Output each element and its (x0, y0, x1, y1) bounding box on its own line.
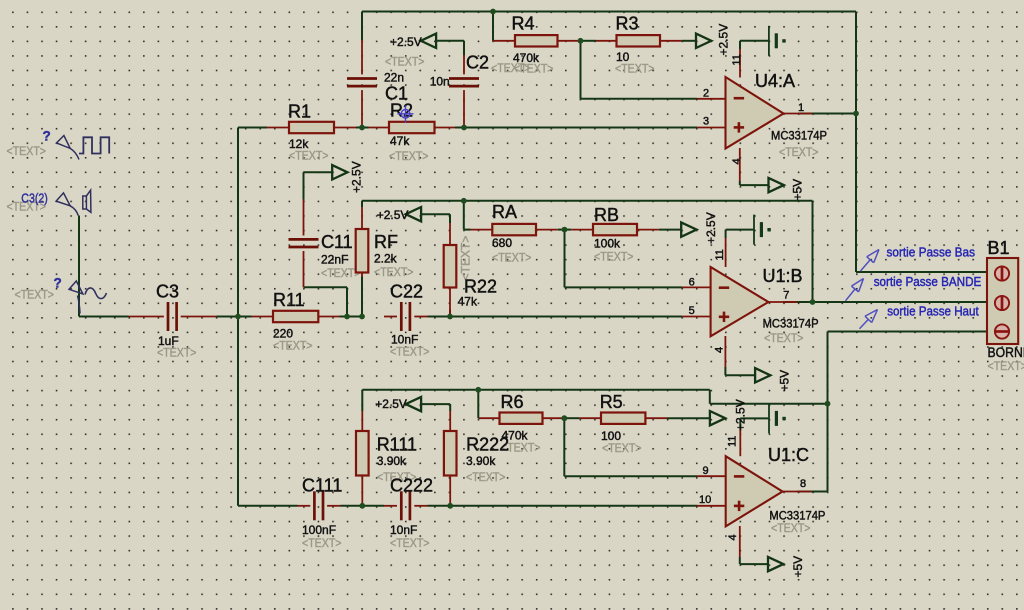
svg-text:C11: C11 (321, 232, 353, 252)
svg-text:+2.5V: +2.5V (734, 399, 748, 431)
svg-text:+2.5V: +2.5V (375, 397, 407, 411)
svg-text:R22: R22 (464, 277, 497, 297)
svg-text:+2.5V: +2.5V (717, 24, 731, 56)
svg-text:R222: R222 (466, 435, 509, 455)
svg-text:C3: C3 (156, 282, 179, 302)
svg-text:10n: 10n (430, 75, 450, 89)
svg-text:R1: R1 (288, 102, 311, 122)
svg-text:<TEXT>: <TEXT> (594, 250, 634, 264)
svg-text:<TEXT>: <TEXT> (492, 251, 532, 265)
svg-text:2: 2 (703, 88, 709, 100)
svg-text:5: 5 (689, 305, 695, 317)
svg-text:sortie Passe Bas: sortie Passe Bas (887, 246, 976, 260)
svg-text:C1: C1 (385, 84, 408, 104)
svg-text:U1:C: U1:C (768, 445, 809, 465)
svg-text:4: 4 (714, 347, 726, 353)
svg-text:+5V: +5V (791, 556, 805, 578)
svg-text:<TEXT>: <TEXT> (779, 145, 819, 159)
svg-text:11: 11 (714, 249, 726, 260)
svg-text:<TEXT>: <TEXT> (15, 288, 55, 302)
svg-text:<TEXT>: <TEXT> (459, 236, 473, 281)
svg-text:<TEXT>: <TEXT> (466, 470, 506, 484)
svg-text:+2.5V: +2.5V (377, 208, 409, 222)
svg-text:R4: R4 (512, 14, 535, 34)
svg-text:<TEXT>: <TEXT> (390, 536, 430, 550)
svg-text:RF: RF (374, 232, 398, 252)
svg-text:+2.5V: +2.5V (704, 212, 718, 244)
svg-text:?: ? (43, 129, 51, 144)
svg-text:<TEXT>: <TEXT> (988, 359, 1024, 373)
svg-text:<TEXT>: <TEXT> (390, 345, 430, 359)
svg-text:10nF: 10nF (391, 333, 418, 347)
svg-text:C111: C111 (302, 476, 342, 496)
svg-text:R3: R3 (616, 14, 639, 34)
svg-text:10: 10 (699, 494, 711, 506)
svg-text:4: 4 (731, 158, 743, 164)
svg-text:C22: C22 (390, 282, 423, 302)
svg-text:<TEXT>: <TEXT> (771, 521, 811, 535)
svg-text:1: 1 (798, 102, 804, 114)
svg-text:<TEXT>: <TEXT> (321, 266, 361, 280)
svg-text:<TEXT>: <TEXT> (385, 55, 425, 69)
svg-text:12k: 12k (289, 137, 309, 151)
svg-text:3.90k: 3.90k (377, 454, 407, 468)
svg-text:100nF: 100nF (302, 523, 336, 537)
svg-text:10: 10 (616, 50, 630, 64)
svg-text:U4:A: U4:A (755, 71, 795, 91)
svg-text:C3(2): C3(2) (21, 192, 48, 206)
svg-text:RA: RA (492, 202, 517, 222)
svg-text:100: 100 (601, 429, 621, 443)
svg-text:2.2k: 2.2k (374, 252, 398, 266)
svg-text:MC33174P: MC33174P (763, 317, 819, 331)
svg-text:7: 7 (783, 290, 789, 302)
svg-text:10nF: 10nF (390, 523, 417, 537)
svg-text:9: 9 (703, 465, 709, 477)
svg-text:sortie Passe Haut: sortie Passe Haut (887, 305, 979, 319)
svg-text:470k: 470k (513, 51, 540, 65)
svg-text:B1: B1 (988, 238, 1010, 258)
svg-text:100k: 100k (594, 237, 621, 251)
svg-text:R111: R111 (377, 435, 417, 455)
svg-text:22n: 22n (384, 71, 404, 85)
svg-text:1uF: 1uF (158, 334, 179, 348)
svg-text:+2.5V: +2.5V (350, 161, 364, 193)
svg-text:MC33174P: MC33174P (771, 129, 827, 143)
svg-text:22nF: 22nF (321, 253, 348, 267)
svg-text:sortie Passe BANDE: sortie Passe BANDE (874, 275, 982, 289)
svg-text:R11: R11 (273, 290, 305, 310)
svg-text:47k: 47k (390, 134, 410, 148)
svg-text:BORNIER,: BORNIER, (988, 345, 1024, 360)
svg-text:11: 11 (727, 436, 739, 447)
svg-text:3: 3 (703, 116, 709, 128)
svg-text:6: 6 (689, 276, 695, 288)
svg-text:<TEXT>: <TEXT> (389, 149, 429, 163)
svg-text:8: 8 (800, 478, 806, 490)
svg-text:C222: C222 (390, 476, 433, 496)
svg-text:R5: R5 (600, 392, 623, 412)
svg-text:3.90k: 3.90k (466, 454, 496, 468)
svg-text:<TEXT>: <TEXT> (302, 536, 342, 550)
svg-text:47k: 47k (458, 295, 478, 309)
svg-text:4: 4 (727, 534, 739, 540)
svg-text:680: 680 (492, 236, 512, 250)
svg-text:<TEXT>: <TEXT> (7, 144, 47, 158)
svg-text:+2.5V: +2.5V (390, 35, 422, 49)
svg-text:+5V: +5V (791, 179, 805, 201)
svg-text:MC33174P: MC33174P (769, 508, 825, 522)
svg-text:C2: C2 (466, 53, 489, 73)
svg-text:220: 220 (273, 327, 293, 341)
svg-text:<TEXT>: <TEXT> (764, 331, 804, 345)
svg-text:<TEXT>: <TEXT> (273, 339, 313, 353)
svg-text:11: 11 (731, 54, 743, 65)
svg-text:?: ? (54, 276, 62, 291)
svg-text:R2: R2 (390, 101, 413, 121)
svg-text:R6: R6 (501, 392, 524, 412)
svg-text:+5V: +5V (778, 370, 792, 392)
svg-text:<TEXT>: <TEXT> (602, 441, 642, 455)
svg-text:U1:B: U1:B (763, 266, 803, 286)
svg-text:RB: RB (594, 205, 619, 225)
svg-text:<TEXT>: <TEXT> (374, 265, 414, 279)
